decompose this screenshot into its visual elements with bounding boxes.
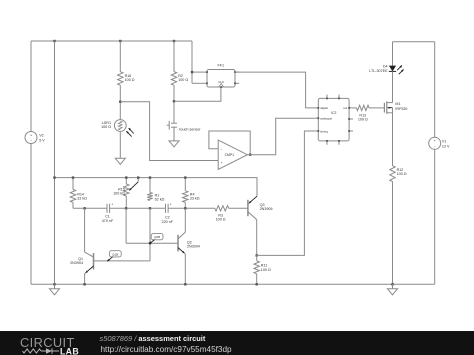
- svg-text:2N3904: 2N3904: [70, 261, 83, 265]
- svg-text:100 Ω: 100 Ω: [101, 125, 111, 129]
- node bottom R11: [256, 283, 258, 285]
- svg-text:100 Ω: 100 Ω: [125, 78, 135, 82]
- wire coupling mid1: [111, 207, 165, 209]
- svg-text:+: +: [434, 139, 436, 143]
- resistor R1: [147, 193, 164, 202]
- ground below LDR1: [115, 158, 125, 164]
- wire bottom ground rail: [31, 283, 435, 285]
- label box Q2B: [149, 234, 163, 244]
- wire R16 top lead: [119, 41, 121, 72]
- wire CMP1 feedback: [209, 131, 250, 155]
- node coupling Q2base: [125, 207, 127, 209]
- wire R2 to touch sensor: [173, 85, 175, 123]
- svg-text:+: +: [221, 161, 223, 165]
- svg-text:D4: D4: [383, 65, 388, 69]
- svg-text:IC2: IC2: [331, 111, 336, 115]
- resistor R4: [183, 191, 200, 203]
- wire R11 top lead: [256, 255, 258, 260]
- node coupling Q1C: [83, 207, 85, 209]
- resistor R16: [118, 72, 135, 86]
- op-amp CMP1: [218, 140, 247, 169]
- svg-text:V1: V1: [442, 139, 447, 143]
- diode D4 (LED): [369, 65, 403, 75]
- footer bar: [0, 331, 474, 355]
- wire LED to MOSFET drain: [392, 71, 394, 102]
- node rail2 R14: [72, 176, 74, 178]
- transistor Q3 (2N3906): [248, 196, 273, 219]
- svg-text:CMP1: CMP1: [225, 153, 235, 157]
- voltage source V2: [25, 132, 45, 144]
- wire R3 to Q3 base: [229, 207, 248, 209]
- svg-text:−: −: [30, 139, 32, 143]
- svg-text:2N3906: 2N3906: [260, 207, 273, 211]
- svg-text:−: −: [221, 148, 223, 152]
- svg-text:100 Ω: 100 Ω: [358, 118, 368, 122]
- label box Q1B: [107, 251, 121, 262]
- wire Q2 base horizontal: [126, 242, 178, 244]
- svg-text:FF1: FF1: [218, 64, 225, 68]
- ground bottom left: [50, 284, 60, 295]
- svg-text:100 Ω: 100 Ω: [397, 172, 407, 176]
- wire right rail: [393, 41, 435, 43]
- wire Q2 collector vertical: [184, 208, 186, 232]
- svg-text:62 kΩ: 62 kΩ: [155, 198, 165, 202]
- svg-text:100 kΩ: 100 kΩ: [113, 192, 125, 196]
- node rail1 R16: [119, 40, 121, 42]
- svg-text:http://circuitlab.com/c97v55m4: http://circuitlab.com/c97v55m45f3dp: [101, 345, 233, 354]
- svg-text:IRF530: IRF530: [395, 107, 407, 111]
- svg-text:LTL-307EE: LTL-307EE: [369, 69, 388, 73]
- resistor R12: [390, 166, 407, 182]
- wire MOSFET source down: [392, 113, 394, 166]
- wire R16 to LDR: [119, 85, 121, 119]
- svg-text:−: −: [434, 144, 436, 148]
- transistor M1 (IRF530 NMOS): [384, 101, 407, 113]
- svg-text:220 nF: 220 nF: [162, 220, 174, 224]
- svg-text:100 Ω: 100 Ω: [261, 268, 271, 272]
- ground bottom right: [388, 284, 398, 295]
- photoresistor LDR1: [101, 120, 134, 137]
- node R2-touch junction: [173, 100, 175, 102]
- wire LDR to ground: [119, 131, 121, 158]
- wire touch node to FF1 CLK: [174, 87, 221, 101]
- node rail2 R1: [149, 176, 151, 178]
- svg-text:V2: V2: [39, 134, 44, 138]
- svg-text:+: +: [170, 203, 172, 207]
- IC U2 (IC2): [314, 95, 353, 145]
- wire Q2 base drop: [125, 208, 127, 243]
- node R16-LDR junction: [119, 101, 121, 103]
- resistor R13: [357, 105, 370, 122]
- voltage source V1: [429, 137, 450, 149]
- wire top 5V rail: [31, 40, 192, 42]
- svg-text:470 nF: 470 nF: [102, 219, 114, 223]
- node bottom Q1: [83, 283, 85, 285]
- node bottom R12: [391, 283, 393, 285]
- transistor Q2 (2N3904): [178, 232, 200, 284]
- wire IC2 out to R13: [353, 107, 357, 109]
- wire V1 upper: [434, 42, 436, 138]
- node Q3 collector: [256, 254, 258, 256]
- wire R13 to gate: [369, 107, 384, 109]
- wire R15 bottom lead: [125, 196, 127, 208]
- wire R4 top lead: [184, 178, 186, 191]
- node rail2 left junction: [53, 176, 55, 178]
- flip-flop FF1: [206, 64, 239, 88]
- node rail1 left vertical: [53, 40, 55, 42]
- wire R1 drop: [149, 208, 151, 261]
- svg-text:M1: M1: [395, 102, 400, 106]
- svg-text:+: +: [30, 133, 32, 137]
- node bottom left gnd: [53, 283, 55, 285]
- wire R11 bottom lead: [256, 274, 258, 285]
- node CMP1 output: [249, 154, 251, 156]
- svg-text:out: out: [343, 106, 347, 110]
- capacitor C1: [102, 203, 114, 223]
- svg-text:2N3904: 2N3904: [187, 245, 200, 249]
- wire FF1 out to IC2 digital: [235, 72, 314, 108]
- node bottom Q2: [184, 283, 186, 285]
- svg-text:100 Ω: 100 Ω: [178, 78, 188, 82]
- wire R2 top lead: [173, 41, 175, 72]
- wire LDR node to comparator +: [120, 102, 218, 161]
- wire FF1 input vertical: [192, 41, 207, 83]
- wire V2 branch upper: [30, 41, 32, 132]
- svg-text:+: +: [111, 203, 113, 207]
- wire V1 lower: [434, 149, 436, 284]
- switch touch sensor: [167, 121, 201, 132]
- svg-text:touch sensor: touch sensor: [179, 127, 201, 131]
- node Q2 base crossing: [149, 242, 151, 244]
- node coupling R1: [149, 207, 151, 209]
- wire rail to LED: [392, 42, 394, 66]
- node FF1 input junction: [191, 71, 193, 73]
- resistor R2: [171, 72, 188, 86]
- wire touch to ground: [173, 127, 175, 141]
- wire R14 top lead: [72, 178, 74, 190]
- svg-text:100 Ω: 100 Ω: [216, 218, 226, 222]
- svg-text:Q1B: Q1B: [112, 252, 118, 256]
- wire V2 branch lower: [30, 144, 32, 285]
- node rail1 R2: [173, 40, 175, 42]
- svg-text:33 kΩ: 33 kΩ: [190, 197, 200, 201]
- wire Q1 base horizontal: [94, 260, 151, 262]
- resistor R11: [254, 261, 271, 274]
- svg-text:s5087869 / assessment circuit: s5087869 / assessment circuit: [100, 334, 206, 343]
- wire Q3 collector vertical: [256, 220, 258, 256]
- svg-text:CLK: CLK: [218, 80, 224, 84]
- wire R14 bottom lead: [72, 202, 74, 208]
- wire coupling left: [73, 207, 106, 209]
- wire R4 bottom lead: [184, 202, 186, 208]
- wire Q3 node to IC2 timing: [257, 131, 315, 255]
- potentiometer R15: [113, 178, 138, 196]
- wire multivibrator supply rail: [55, 178, 258, 197]
- transistor Q1 (2N3904): [70, 252, 93, 284]
- wire CMP1 out to IC2 analogue: [247, 118, 314, 155]
- svg-text:5 V: 5 V: [39, 139, 45, 143]
- svg-text:Q2B: Q2B: [154, 235, 160, 239]
- wire coupling mid2: [169, 207, 215, 209]
- svg-text:12 V: 12 V: [442, 144, 450, 148]
- svg-text:33 kΩ: 33 kΩ: [77, 197, 87, 201]
- wire left supply vertical: [54, 41, 56, 284]
- node rail2 R4: [184, 176, 186, 178]
- node rail2 wiper: [137, 176, 139, 178]
- capacitor C2: [162, 203, 174, 224]
- wire R15 top lead: [125, 178, 127, 184]
- wire R12 to ground rail: [392, 182, 394, 285]
- node rail2 R15: [125, 176, 127, 178]
- svg-text:timing: timing: [320, 129, 328, 133]
- wire R1 top lead: [149, 178, 151, 193]
- ground below touch sensor: [169, 141, 179, 147]
- resistor R3: [215, 206, 229, 222]
- svg-text:digital: digital: [320, 106, 328, 110]
- node coupling Q2C: [184, 207, 186, 209]
- resistor R14: [70, 189, 87, 202]
- svg-text:analogue: analogue: [320, 117, 332, 121]
- wire Q1 collector vertical: [84, 208, 86, 252]
- svg-text:LAB: LAB: [60, 346, 79, 355]
